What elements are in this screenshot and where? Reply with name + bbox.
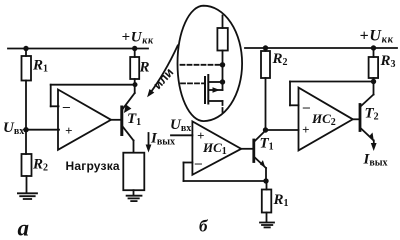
svg-text:Iвых: Iвых [150, 131, 175, 148]
svg-text:Uвх: Uвх [170, 117, 191, 134]
svg-text:T1: T1 [260, 136, 274, 153]
svg-text:Нагрузка: Нагрузка [66, 159, 120, 173]
svg-text:R3: R3 [380, 53, 396, 70]
svg-text:Uвх: Uвх [3, 120, 24, 137]
svg-text:+: + [302, 122, 309, 137]
svg-text:ИС1: ИС1 [202, 140, 227, 157]
svg-text:+Uкк: +Uкк [122, 30, 155, 47]
svg-text:R2: R2 [272, 51, 288, 68]
svg-text:R: R [139, 60, 150, 76]
svg-text:–: – [62, 100, 70, 115]
svg-text:Iвых: Iвых [363, 152, 388, 169]
svg-text:+: + [197, 128, 204, 143]
svg-text:а: а [18, 216, 30, 240]
svg-text:+Uкк: +Uкк [360, 28, 394, 46]
svg-text:–: – [194, 156, 202, 171]
svg-text:R1: R1 [32, 58, 48, 75]
svg-text:б: б [199, 217, 209, 236]
svg-text:R2: R2 [32, 157, 48, 174]
svg-text:–: – [302, 100, 310, 115]
svg-text:R1: R1 [273, 192, 289, 209]
svg-text:ИС2: ИС2 [311, 111, 336, 128]
svg-text:T2: T2 [365, 106, 379, 123]
svg-text:+: + [65, 123, 72, 138]
svg-text:T1: T1 [127, 111, 141, 128]
